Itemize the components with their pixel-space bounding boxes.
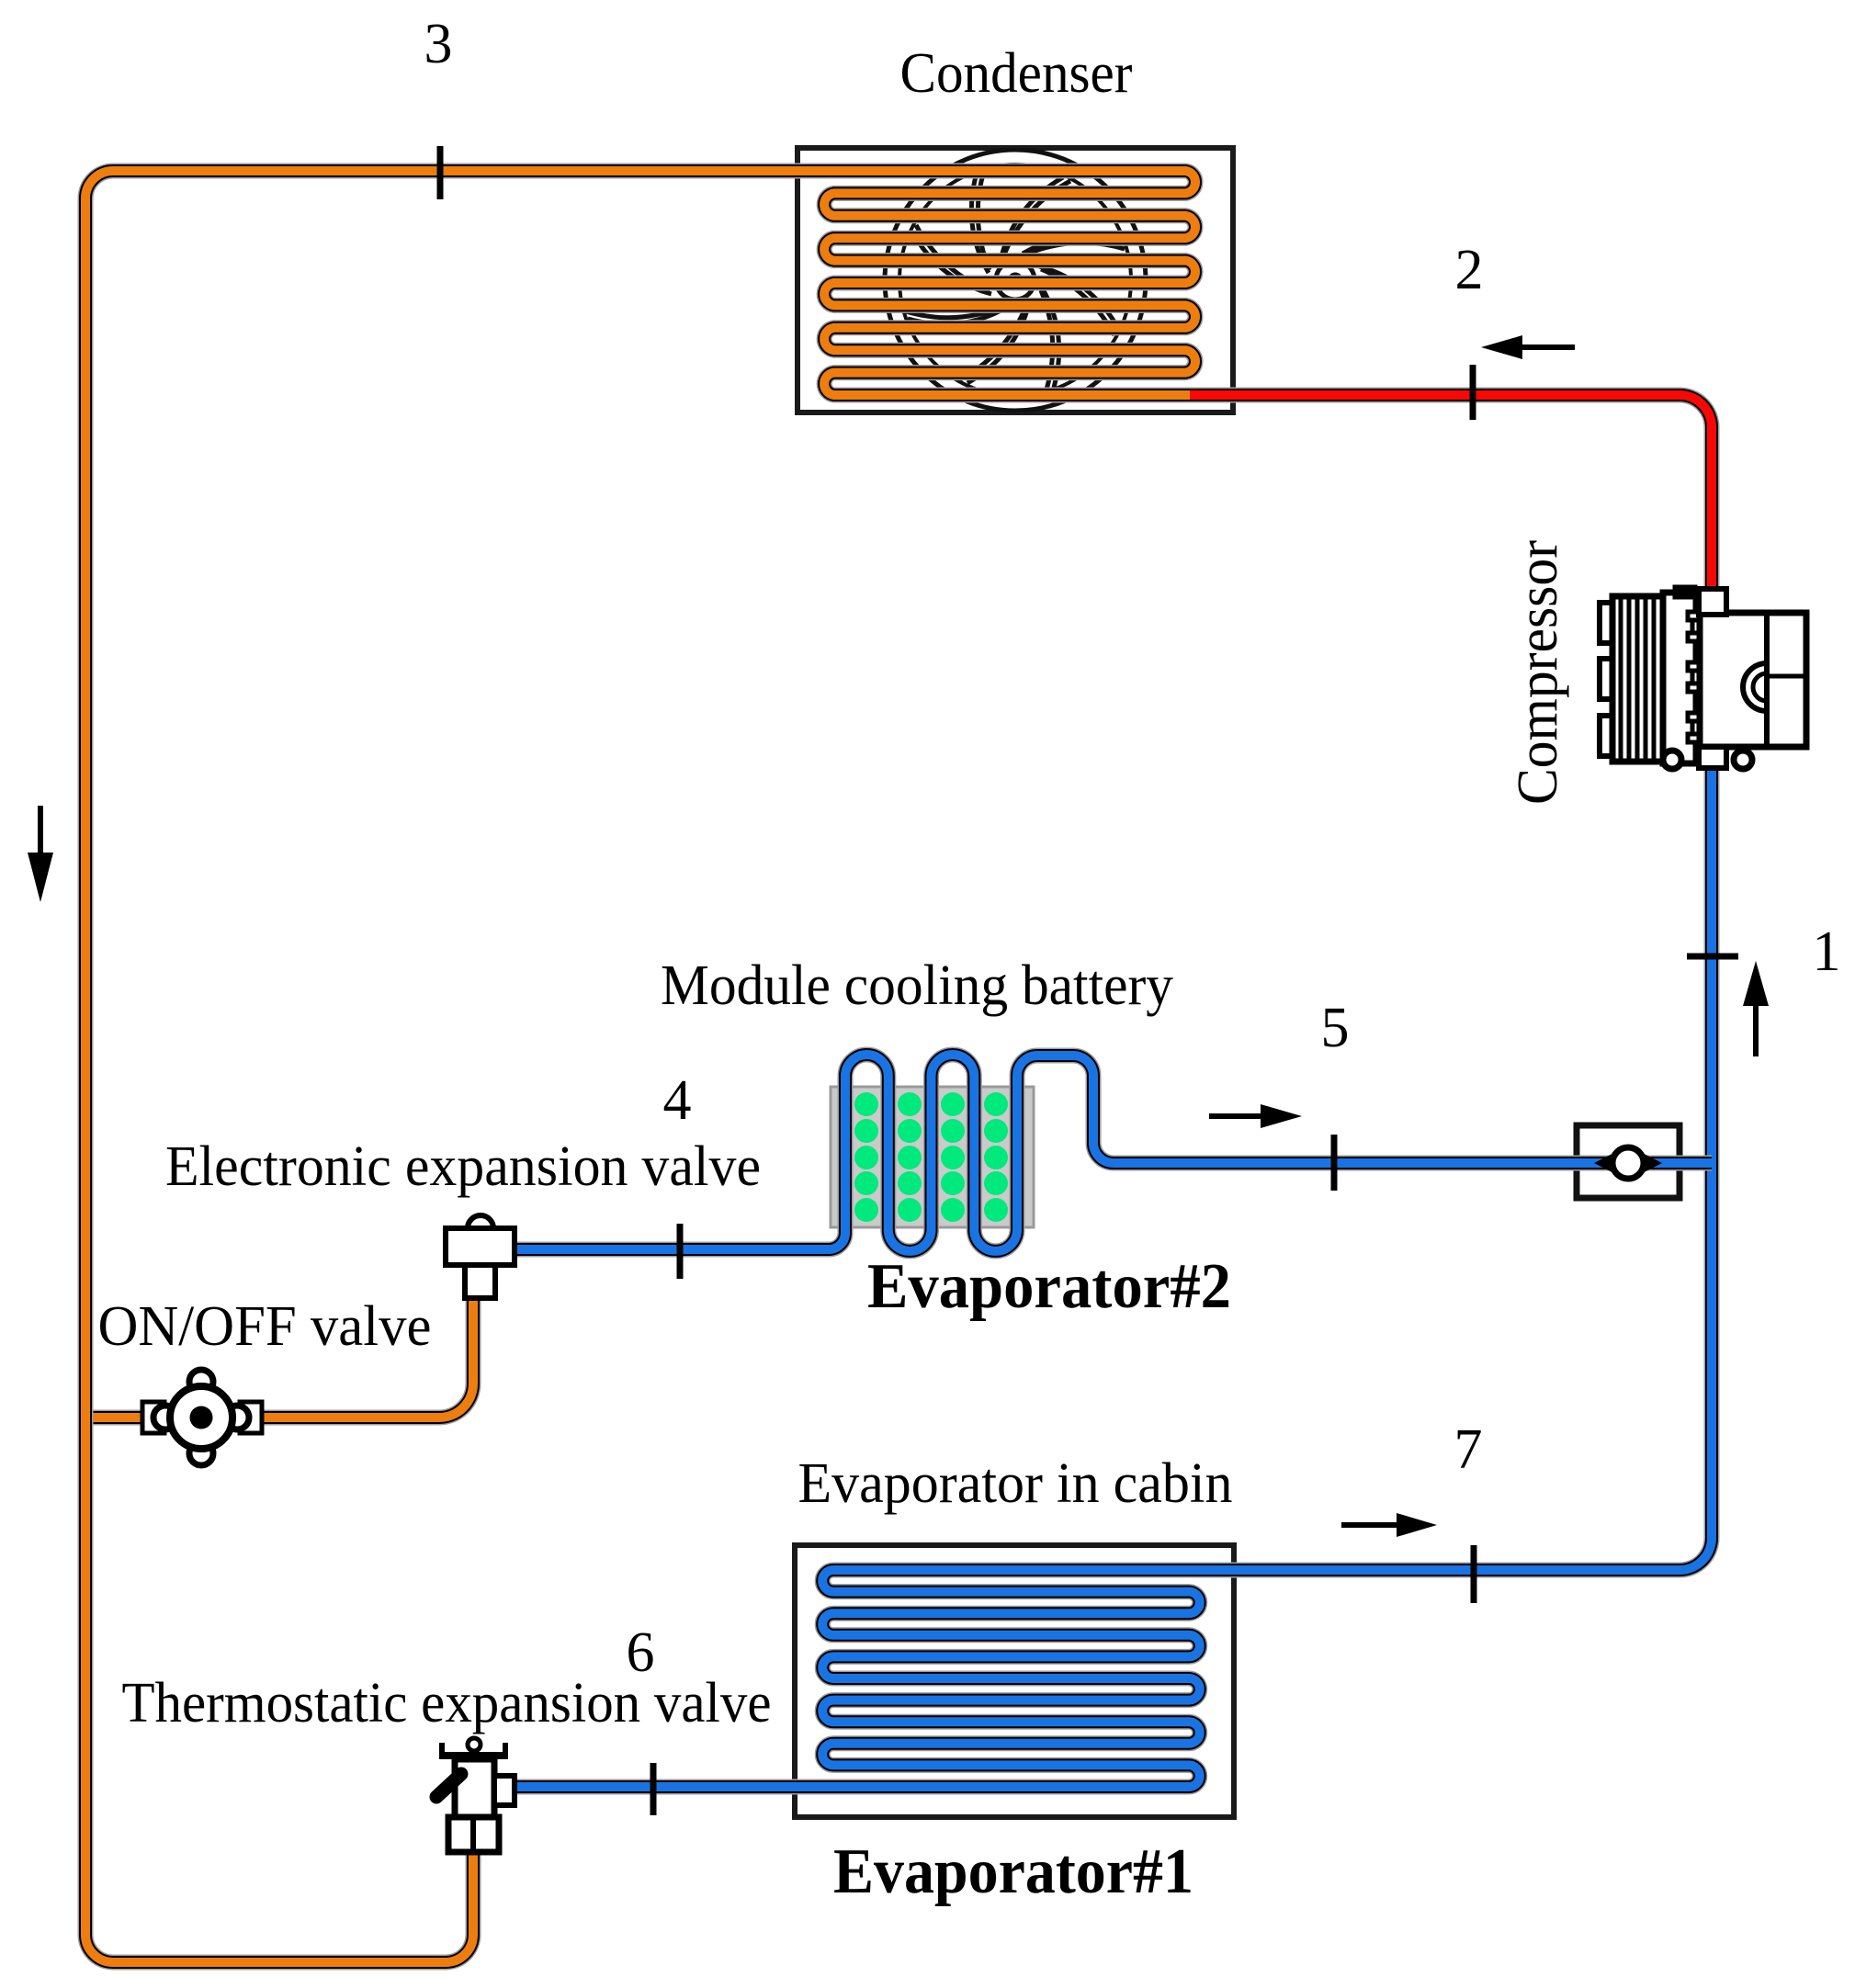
node 5 tick bbox=[1331, 1135, 1338, 1191]
wire: suction line from compressor outlet down through node 7 into Evaporator#1 coil to thermostatic valve bbox=[513, 759, 1712, 1787]
flow arrow left on discharge line near node 2 bbox=[1481, 335, 1575, 359]
svg-text:Evaporator#1: Evaporator#1 bbox=[833, 1836, 1193, 1907]
flow arrow up on riser near node 1 bbox=[1743, 961, 1769, 1056]
electronic expansion valve bbox=[446, 1215, 515, 1298]
svg-text:Compressor: Compressor bbox=[1507, 540, 1569, 805]
svg-text:3: 3 bbox=[424, 13, 453, 75]
svg-text:ON/OFF valve: ON/OFF valve bbox=[98, 1295, 432, 1358]
svg-text:Condenser: Condenser bbox=[900, 42, 1133, 105]
battery cells (green dots) bbox=[854, 1092, 1008, 1222]
svg-text:1: 1 bbox=[1813, 921, 1841, 983]
node 4 tick bbox=[677, 1224, 684, 1279]
thermostatic expansion valve bbox=[436, 1738, 515, 1853]
node 1 tick bbox=[1687, 954, 1738, 960]
node 3 tick bbox=[437, 146, 444, 199]
check valve box bbox=[1577, 1125, 1680, 1198]
check valve symbol bbox=[1594, 1146, 1662, 1180]
evaporator in cabin housing box (Evaporator#1) bbox=[795, 1545, 1234, 1817]
node 6 tick bbox=[650, 1763, 657, 1815]
condenser fan bbox=[885, 150, 1146, 411]
node 2 tick bbox=[1470, 365, 1476, 420]
compressor bbox=[1600, 586, 1806, 769]
flow arrow right on line 7 bbox=[1341, 1513, 1437, 1537]
svg-text:6: 6 bbox=[627, 1621, 655, 1684]
svg-text:4: 4 bbox=[663, 1069, 692, 1132]
svg-text:Evaporator#2: Evaporator#2 bbox=[867, 1251, 1231, 1322]
svg-text:Electronic expansion valve: Electronic expansion valve bbox=[165, 1135, 761, 1198]
wire: suction line from electronic expansion valve through Evaporator#2 coil and node 5 to check valve and main riser bbox=[513, 1055, 1712, 1251]
wire: hot gas discharge line from condenser outlet through node 2 to compressor inlet bbox=[1174, 395, 1712, 606]
flow arrow down on left liquid line bbox=[28, 806, 53, 902]
svg-text:7: 7 bbox=[1454, 1418, 1483, 1481]
svg-text:5: 5 bbox=[1321, 997, 1350, 1059]
flow arrow right on line 5 bbox=[1209, 1104, 1302, 1128]
condenser housing box bbox=[797, 148, 1233, 412]
svg-text:Module cooling battery: Module cooling battery bbox=[661, 954, 1173, 1017]
module cooling battery body (Evaporator#2) bbox=[831, 1087, 1034, 1227]
ON/OFF valve bbox=[142, 1370, 262, 1465]
svg-text:2: 2 bbox=[1455, 239, 1484, 301]
wire: liquid branch from main liquid line through ON/OFF valve up to electronic expansion valve bbox=[85, 1293, 473, 1418]
svg-text:Evaporator in cabin: Evaporator in cabin bbox=[798, 1452, 1233, 1515]
node 7 tick bbox=[1471, 1545, 1477, 1603]
svg-text:Thermostatic expansion valve: Thermostatic expansion valve bbox=[122, 1672, 772, 1734]
wire: main liquid line from thermostatic valve along bottom, up left side through node 3 into condenser coil bbox=[85, 171, 1195, 1962]
